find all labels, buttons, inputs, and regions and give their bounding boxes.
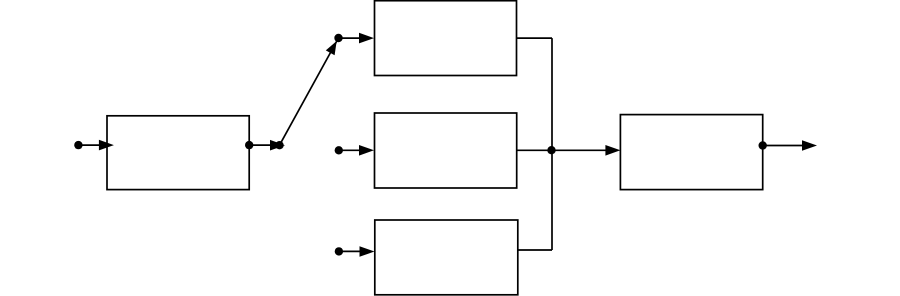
arrowhead on switch arm bbox=[326, 41, 337, 55]
node N4 (middle input terminal dot) bbox=[335, 146, 343, 154]
wire N3 to B2 input bbox=[339, 37, 361, 39]
node N2 (B1 output dot on right edge) bbox=[245, 141, 253, 149]
wire N5 to B4 input bbox=[339, 250, 361, 252]
node N6 (B5 output dot on right edge) bbox=[759, 141, 767, 149]
node N3 (switch top throw dot) bbox=[334, 34, 342, 42]
wire B5 output bbox=[763, 145, 803, 147]
wire N1 to B1 input bbox=[78, 144, 100, 146]
block B5 (output block) bbox=[620, 115, 762, 190]
arrowhead into B4 bbox=[360, 246, 375, 257]
wire B1 output to switch pivot bbox=[249, 144, 271, 146]
wire B4 output (bottom box to bus corner) bbox=[518, 249, 552, 251]
wire bus vertical (top corner down to bottom corner) bbox=[551, 38, 553, 250]
arrowhead into B3 bbox=[359, 145, 374, 156]
node P (switch pivot dot) bbox=[275, 141, 283, 149]
node J1 (bus junction dot) bbox=[547, 146, 555, 154]
arrowhead output terminal bbox=[802, 140, 817, 151]
arrowhead into B5 bbox=[605, 145, 620, 156]
wire B2 output (top box to bus corner) bbox=[517, 37, 553, 39]
node N5 (bottom input terminal dot) bbox=[335, 247, 343, 255]
wire N4 to B3 input bbox=[339, 149, 361, 151]
arrowhead at switch pivot bbox=[270, 140, 285, 151]
wire switch arm (pivot up to top throw) bbox=[280, 38, 339, 145]
node N1 (input terminal dot) bbox=[74, 141, 82, 149]
block B2 (top branch block) bbox=[375, 1, 517, 76]
block B4 (bottom branch block) bbox=[375, 220, 518, 295]
block B3 (middle branch block) bbox=[375, 113, 517, 188]
wire B3 output to B5 input bbox=[517, 149, 606, 151]
arrowhead into B1 bbox=[99, 140, 114, 151]
arrowhead into B2 bbox=[359, 33, 374, 44]
block B1 (left input block) bbox=[107, 116, 249, 190]
